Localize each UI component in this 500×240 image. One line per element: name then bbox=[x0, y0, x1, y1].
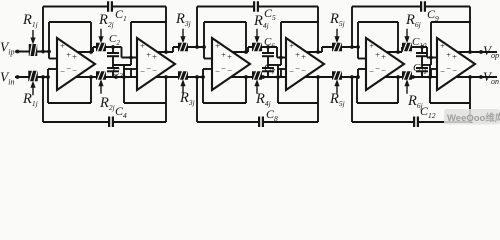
svg-text:−: − bbox=[140, 67, 145, 77]
svg-text:+: + bbox=[301, 52, 306, 62]
svg-text:+: + bbox=[227, 52, 232, 62]
svg-text:R2j: R2j bbox=[99, 95, 115, 112]
svg-text:+: + bbox=[72, 52, 77, 62]
svg-text:−: − bbox=[215, 67, 220, 77]
svg-text:+: + bbox=[66, 50, 71, 60]
svg-text:WeeQoo维库: WeeQoo维库 bbox=[447, 112, 500, 124]
svg-text:C3: C3 bbox=[112, 66, 123, 80]
svg-text:R2j: R2j bbox=[98, 12, 114, 29]
svg-text:C8: C8 bbox=[266, 107, 278, 123]
svg-text:−: − bbox=[375, 64, 380, 74]
svg-text:+: + bbox=[440, 41, 445, 51]
svg-text:R3j: R3j bbox=[179, 90, 195, 107]
svg-text:Vip: Vip bbox=[0, 40, 14, 57]
svg-text:R5j: R5j bbox=[329, 11, 345, 28]
svg-text:−: − bbox=[369, 67, 374, 77]
svg-text:+: + bbox=[140, 41, 145, 51]
svg-text:−: − bbox=[440, 67, 445, 77]
svg-text:+: + bbox=[452, 52, 457, 62]
svg-text:C6: C6 bbox=[264, 36, 275, 50]
svg-text:−: − bbox=[452, 66, 457, 76]
svg-text:+: + bbox=[289, 41, 294, 51]
svg-text:−: − bbox=[221, 64, 226, 74]
svg-text:+: + bbox=[295, 50, 300, 60]
svg-text:−: − bbox=[152, 66, 157, 76]
svg-text:−: − bbox=[301, 66, 306, 76]
svg-text:Vin: Vin bbox=[0, 70, 14, 87]
svg-text:−: − bbox=[227, 66, 232, 76]
svg-text:R4j: R4j bbox=[255, 91, 271, 108]
svg-text:+: + bbox=[375, 50, 380, 60]
svg-text:Vop: Vop bbox=[483, 43, 499, 60]
svg-text:R1j: R1j bbox=[22, 12, 38, 29]
svg-text:−: − bbox=[66, 64, 71, 74]
svg-text:C2: C2 bbox=[109, 33, 120, 47]
svg-text:R5j: R5j bbox=[329, 91, 345, 108]
svg-text:+: + bbox=[215, 41, 220, 51]
svg-text:Von: Von bbox=[483, 69, 499, 86]
svg-text:C10: C10 bbox=[412, 36, 427, 50]
svg-text:−: − bbox=[60, 67, 65, 77]
svg-text:−: − bbox=[446, 64, 451, 74]
svg-text:C5: C5 bbox=[264, 6, 276, 22]
svg-text:−: − bbox=[146, 64, 151, 74]
svg-text:C9: C9 bbox=[427, 7, 439, 23]
svg-text:+: + bbox=[146, 50, 151, 60]
svg-text:C12: C12 bbox=[420, 104, 436, 120]
svg-text:C4: C4 bbox=[115, 104, 127, 120]
svg-text:−: − bbox=[289, 67, 294, 77]
svg-text:+: + bbox=[381, 52, 386, 62]
svg-text:R1j: R1j bbox=[22, 91, 38, 108]
svg-text:−: − bbox=[295, 64, 300, 74]
svg-text:+: + bbox=[369, 41, 374, 51]
svg-text:+: + bbox=[446, 50, 451, 60]
svg-text:−: − bbox=[72, 66, 77, 76]
svg-text:+: + bbox=[152, 52, 157, 62]
svg-text:+: + bbox=[60, 41, 65, 51]
svg-text:R6j: R6j bbox=[405, 12, 421, 29]
svg-text:−: − bbox=[381, 66, 386, 76]
svg-text:C1: C1 bbox=[115, 7, 127, 23]
svg-text:+: + bbox=[221, 50, 226, 60]
svg-text:R3j: R3j bbox=[175, 11, 191, 28]
